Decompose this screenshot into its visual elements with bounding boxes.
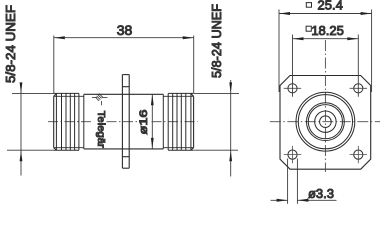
right thread root lines	[163, 96, 193, 147]
dimension 25.4	[279, 10, 372, 93]
hole bottom-right	[354, 150, 363, 159]
leader right UNEF	[230, 80, 232, 177]
front view flange outline	[280, 76, 371, 170]
front view center line vertical	[324, 40, 326, 172]
flange side plate	[122, 75, 129, 169]
body outline	[84, 94, 164, 149]
right undercut groove	[162, 94, 164, 149]
dimension Ø16	[151, 94, 153, 149]
svg-text:5/8-24 UNEF: 5/8-24 UNEF	[3, 5, 18, 83]
right end face	[191, 94, 194, 150]
central circles	[296, 92, 355, 151]
extension lines right UNEF	[194, 93, 239, 150]
svg-text:ø16: ø16	[138, 110, 150, 135]
svg-text:18.25: 18.25	[311, 23, 344, 38]
hole bottom-left	[288, 150, 297, 159]
dimension Ø3.3	[271, 159, 337, 204]
svg-text:25.4: 25.4	[318, 0, 343, 13]
logo symbol	[92, 94, 107, 106]
hole top-left	[288, 84, 297, 93]
extension lines left UNEF	[7, 93, 54, 150]
right thread lines	[168, 93, 191, 150]
front view center line horizontal	[270, 121, 380, 123]
left thread lines	[56, 93, 79, 150]
left thread crest lines	[54, 93, 79, 150]
svg-text:38: 38	[117, 22, 133, 38]
center line side view	[48, 121, 198, 123]
left end face	[54, 94, 57, 150]
svg-text:5/8-24 UNEF: 5/8-24 UNEF	[209, 4, 224, 78]
leader left UNEF	[20, 86, 22, 176]
right thread crest lines	[168, 93, 193, 150]
dimension 18.25	[293, 35, 359, 97]
hole top-right	[354, 84, 363, 93]
svg-text:ø3.3: ø3.3	[308, 186, 334, 201]
left thread root lines	[54, 96, 84, 147]
left undercut groove	[83, 94, 85, 149]
svg-text:Telegär: Telegär	[95, 111, 107, 149]
dimension 38	[54, 36, 194, 94]
